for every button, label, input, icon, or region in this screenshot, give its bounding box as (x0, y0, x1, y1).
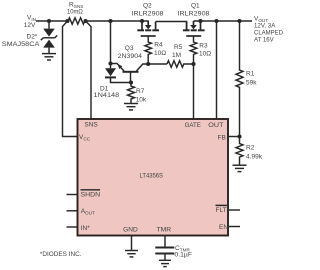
svg-text:TMR: TMR (157, 227, 172, 234)
svg-text:GND: GND (123, 227, 138, 234)
resistor RSNS 10mOhm (68, 18, 85, 24)
svg-text:FB: FB (218, 134, 226, 141)
svg-text:1N4148: 1N4148 (94, 92, 120, 99)
svg-text:D2*: D2* (27, 34, 38, 41)
svg-text:SNS: SNS (84, 122, 98, 129)
resistor R3 10Ohm (190, 36, 197, 64)
svg-text:FLT: FLT (216, 207, 227, 214)
svg-text:1M: 1M (172, 52, 181, 59)
transistor Q3 2N3904 (111, 64, 149, 83)
resistor R7 10k (128, 83, 135, 104)
svg-text:GATE: GATE (185, 122, 202, 129)
node Q1 source dot (198, 19, 202, 23)
wire OUT riser (216, 21, 218, 119)
diode D1 1N4148 (105, 68, 131, 82)
node OUT riser dot (214, 19, 218, 23)
wire GATE riser (193, 64, 195, 119)
node RSNS left dot (65, 19, 69, 23)
IC U1 LT4356S body (78, 119, 229, 236)
svg-text:4.99k: 4.99k (246, 153, 263, 160)
diode D2 SMAJ58CA (bidirectional TVS) (41, 21, 57, 53)
svg-text:10k: 10k (136, 97, 147, 104)
pin IN stub (67, 226, 78, 228)
node R3 / GATE dot (191, 62, 195, 66)
wire D1 from rail (110, 21, 112, 68)
wire output rail to VOUT (194, 20, 253, 22)
wire GND to ground (131, 236, 133, 251)
svg-text:12V: 12V (24, 22, 36, 29)
resistor R4 10Ohm (145, 36, 152, 64)
transistor Q1 IRLR2908 (183, 21, 205, 36)
svg-text:10Ω: 10Ω (154, 50, 166, 57)
pin FLT stub (228, 209, 240, 211)
svg-text:R5: R5 (174, 44, 183, 51)
svg-text:Q2: Q2 (143, 3, 152, 10)
svg-text:AT 16V: AT 16V (254, 37, 274, 44)
svg-text:EN: EN (219, 224, 228, 231)
resistor R2 4.99k (236, 137, 243, 165)
wire VIN to RSNS (36, 20, 68, 22)
svg-text:R3: R3 (199, 43, 208, 50)
ground under R2 (233, 165, 247, 171)
pin AOUT stub (67, 210, 78, 212)
svg-text:CLAMPED: CLAMPED (254, 30, 283, 37)
ground under R7 (124, 104, 138, 110)
resistor R1 59k (236, 21, 243, 137)
wire FB stub (228, 136, 240, 138)
svg-text:LT4356S: LT4356S (140, 172, 164, 179)
svg-text:R4: R4 (154, 42, 163, 49)
svg-text:Q3: Q3 (125, 45, 134, 52)
svg-text:SHDN: SHDN (81, 191, 101, 198)
svg-text:10Ω: 10Ω (199, 51, 211, 58)
ground under D2 (42, 54, 56, 60)
svg-text:R1: R1 (246, 71, 255, 78)
svg-text:R2: R2 (246, 145, 255, 152)
node Q3 base / D1 / R7 dot (129, 80, 133, 84)
svg-text:Q1: Q1 (191, 3, 200, 10)
node RSNS right dot (83, 19, 87, 23)
svg-text:*DIODES INC.: *DIODES INC. (40, 251, 82, 258)
svg-text:12V, 3A: 12V, 3A (254, 23, 276, 30)
pin SHDN stub (67, 194, 78, 196)
transistor Q2 IRLR2908 (137, 21, 159, 36)
svg-text:IRLR2908: IRLR2908 (178, 11, 210, 18)
svg-text:0.1µF: 0.1µF (175, 252, 193, 259)
node VIN junction dot (47, 19, 51, 23)
node D1/Q3 emitter dot (108, 61, 112, 65)
wire RSNS right kelvin to SNS pin (86, 21, 92, 119)
wire TMR to CTMR (164, 236, 166, 247)
pin EN stub (228, 226, 240, 228)
wire gate bus to R5 (148, 63, 167, 65)
wire RSNS left kelvin to VCC pin (63, 21, 78, 137)
svg-text:IRLR2908: IRLR2908 (132, 11, 164, 18)
node FB dot (237, 134, 241, 138)
ground under GND pin (125, 251, 138, 257)
capacitor CTMR 0.1uF (155, 248, 174, 261)
wire rail RSNS to Q2 (86, 20, 149, 22)
svg-text:OUT: OUT (208, 122, 223, 129)
node R1 dot (237, 19, 241, 23)
svg-text:59k: 59k (246, 80, 257, 87)
ground under CTMR (159, 260, 171, 266)
svg-text:2N3904: 2N3904 (118, 53, 143, 60)
resistor R5 1M (167, 61, 194, 68)
svg-text:10mΩ: 10mΩ (67, 9, 83, 16)
svg-text:R7: R7 (136, 88, 145, 95)
node R4 / gate bus dot (146, 62, 150, 66)
svg-text:IN*: IN* (81, 225, 91, 232)
node Q2 drain dot (140, 19, 144, 23)
svg-text:SMAJ58CA: SMAJ58CA (2, 41, 40, 48)
wire Q2 source to Q1 drain (156, 22, 187, 30)
node D1 junction dot (108, 19, 112, 23)
